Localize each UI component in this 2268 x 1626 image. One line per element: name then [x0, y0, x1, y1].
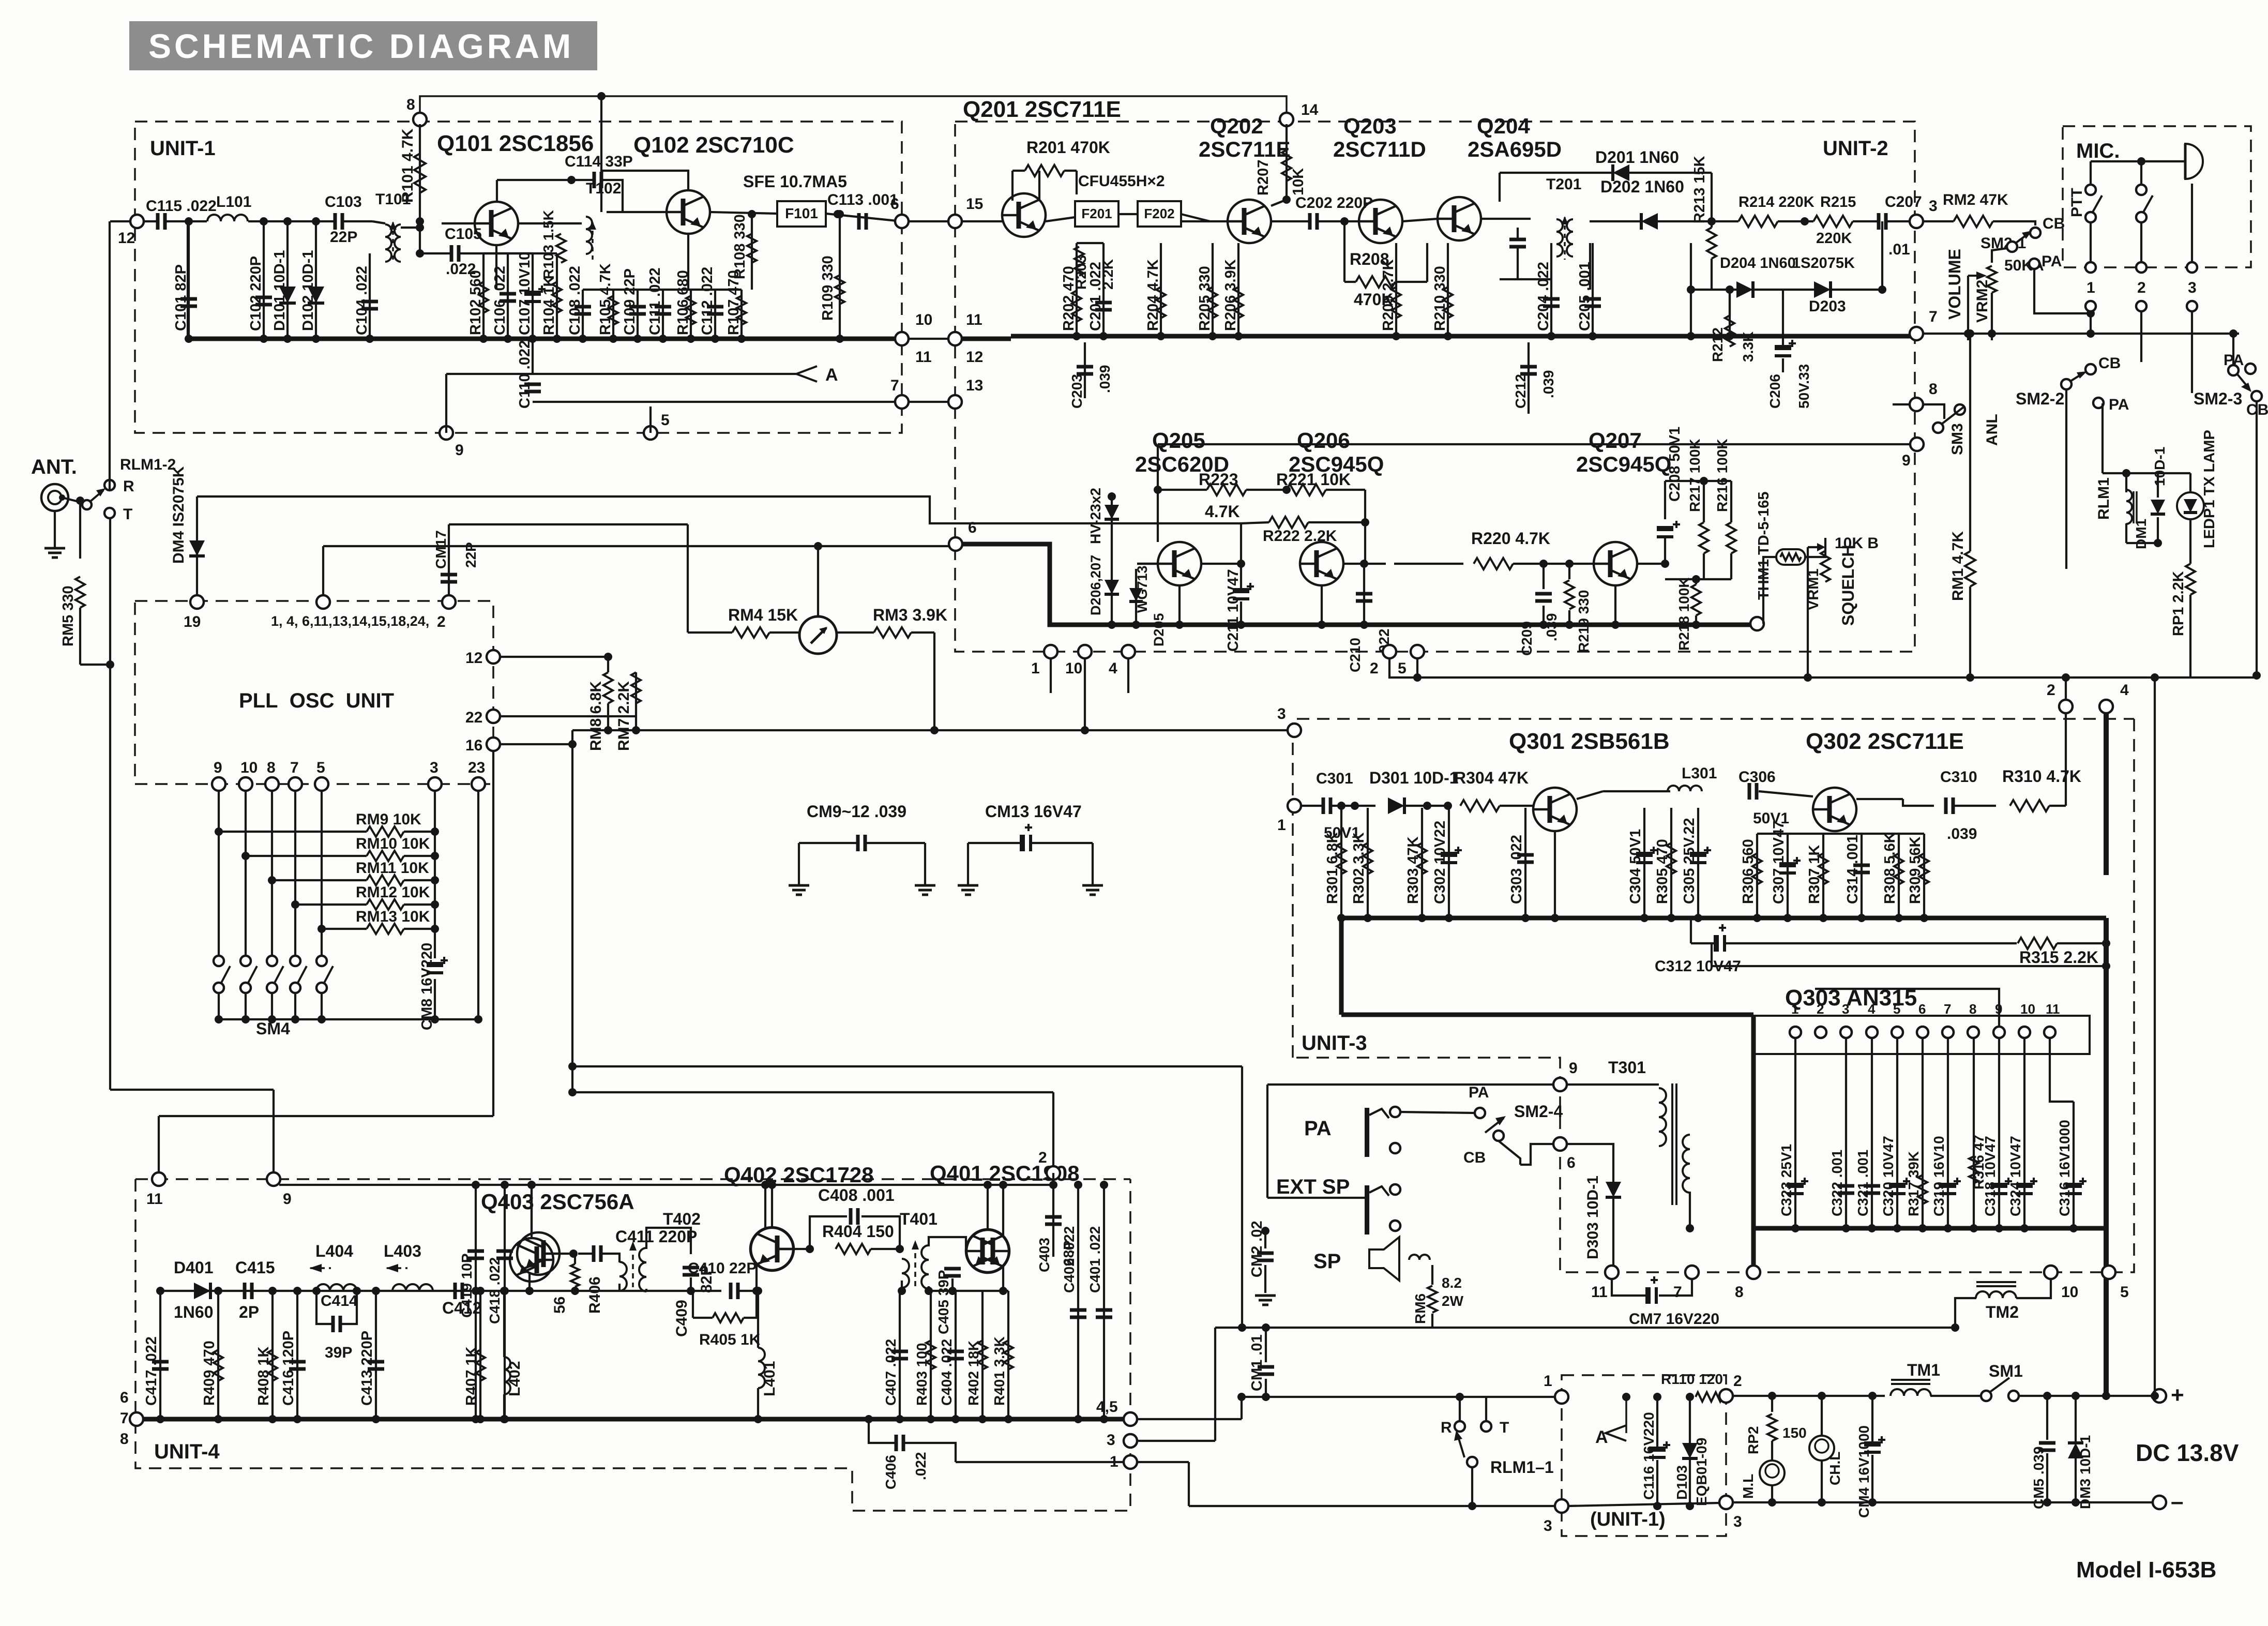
svg-text:PA: PA: [1304, 1117, 1332, 1140]
svg-text:7: 7: [1673, 1284, 1682, 1301]
svg-text:3: 3: [1929, 198, 1938, 215]
svg-text:R406: R406: [586, 1276, 603, 1314]
svg-text:6: 6: [1567, 1154, 1576, 1171]
svg-text:150: 150: [1782, 1425, 1807, 1441]
svg-text:RM12 10K: RM12 10K: [356, 884, 430, 901]
svg-text:1N60: 1N60: [174, 1303, 214, 1321]
svg-text:1: 1: [1277, 817, 1286, 834]
svg-text:12: 12: [118, 230, 135, 247]
svg-text:R214 220K: R214 220K: [1738, 194, 1815, 210]
svg-text:C110 .022: C110 .022: [517, 340, 533, 409]
svg-text:C111 .022: C111 .022: [647, 267, 663, 335]
svg-text:R401 3.3K: R401 3.3K: [991, 1336, 1007, 1406]
svg-text:7: 7: [1929, 308, 1938, 325]
svg-text:9: 9: [1902, 452, 1911, 469]
svg-text:R107 470: R107 470: [725, 270, 742, 335]
svg-text:RLM1–1: RLM1–1: [1490, 1458, 1554, 1477]
svg-text:11: 11: [2046, 1001, 2060, 1017]
svg-text:F202: F202: [1144, 206, 1174, 221]
svg-text:HV-23x2: HV-23x2: [1087, 488, 1103, 544]
svg-text:ANT.: ANT.: [31, 456, 77, 478]
svg-text:D103: D103: [1674, 1465, 1690, 1500]
svg-text:C113 .001: C113 .001: [827, 191, 898, 208]
svg-text:8.2: 8.2: [1442, 1275, 1462, 1291]
svg-text:C417 .022: C417 .022: [143, 1336, 160, 1406]
svg-text:PTT: PTT: [2068, 188, 2085, 217]
svg-text:R110 120: R110 120: [1661, 1371, 1723, 1387]
svg-text:A: A: [1595, 1427, 1608, 1447]
svg-text:C316 16V1000: C316 16V1000: [2057, 1120, 2073, 1216]
svg-text:R109 330: R109 330: [820, 255, 836, 321]
svg-text:C321 .001: C321 .001: [1855, 1150, 1871, 1216]
svg-text:39P: 39P: [325, 1344, 352, 1361]
svg-text:C405 39P: C405 39P: [935, 1270, 951, 1334]
svg-text:4.7K: 4.7K: [1205, 502, 1240, 521]
svg-text:C415: C415: [235, 1258, 275, 1277]
svg-text:3: 3: [2188, 279, 2197, 296]
svg-text:PA: PA: [1469, 1084, 1489, 1101]
svg-text:C314 .001: C314 .001: [1844, 835, 1861, 904]
svg-text:C116 16V220: C116 16V220: [1641, 1412, 1657, 1500]
svg-text:C310: C310: [1940, 769, 1977, 786]
svg-text:3: 3: [1733, 1513, 1742, 1530]
svg-text:C102 220P: C102 220P: [248, 256, 264, 331]
svg-text:7: 7: [120, 1410, 129, 1427]
svg-text:7: 7: [890, 377, 899, 394]
svg-text:3: 3: [1842, 1001, 1849, 1017]
svg-text:R220 4.7K: R220 4.7K: [1471, 529, 1550, 548]
svg-text:2: 2: [1733, 1373, 1742, 1390]
svg-text:.039: .039: [1540, 370, 1556, 399]
svg-text:CM17: CM17: [433, 530, 449, 569]
svg-text:SFE 10.7MA5: SFE 10.7MA5: [743, 172, 847, 191]
svg-text:6: 6: [1918, 1001, 1926, 1017]
svg-text:4: 4: [1868, 1001, 1876, 1017]
svg-text:RLM1: RLM1: [2095, 477, 2112, 520]
svg-text:UNIT-1: UNIT-1: [150, 137, 216, 160]
svg-text:T: T: [123, 506, 132, 523]
svg-text:11: 11: [966, 311, 982, 328]
svg-text:C404 .022: C404 .022: [939, 1339, 955, 1406]
svg-text:R216 100K: R216 100K: [1714, 439, 1730, 512]
svg-text:8: 8: [1929, 381, 1938, 398]
svg-text:2: 2: [2047, 682, 2055, 699]
svg-text:C211 10V47: C211 10V47: [1225, 569, 1242, 652]
svg-text:5: 5: [316, 759, 325, 776]
svg-text:SP: SP: [1313, 1250, 1341, 1273]
svg-text:Q101 2SC1856: Q101 2SC1856: [437, 131, 594, 156]
svg-text:RM5 330: RM5 330: [60, 585, 77, 646]
svg-text:5: 5: [2120, 1284, 2129, 1301]
svg-text:C322 .001: C322 .001: [1829, 1150, 1845, 1216]
svg-text:–: –: [2171, 1489, 2183, 1514]
svg-text:Q301 2SB561B: Q301 2SB561B: [1509, 729, 1670, 754]
svg-text:R213 15K: R213 15K: [1691, 156, 1708, 223]
svg-text:10: 10: [2020, 1001, 2035, 1017]
svg-text:220K: 220K: [1816, 230, 1852, 247]
svg-text:5: 5: [661, 412, 670, 429]
svg-text:C115 .022: C115 .022: [146, 198, 217, 215]
svg-text:C401 .022: C401 .022: [1087, 1226, 1103, 1293]
svg-text:R306 560: R306 560: [1740, 839, 1757, 904]
svg-text:R404 150: R404 150: [822, 1222, 894, 1241]
svg-text:C203: C203: [1069, 374, 1085, 409]
svg-text:RM9 10K: RM9 10K: [356, 811, 421, 828]
svg-text:R203: R203: [1073, 255, 1089, 290]
svg-text:R215: R215: [1820, 194, 1856, 210]
svg-text:DM4 IS2075K: DM4 IS2075K: [170, 466, 187, 564]
svg-text:11: 11: [915, 349, 932, 366]
svg-text:10: 10: [2061, 1284, 2078, 1301]
svg-text:3: 3: [1277, 705, 1286, 722]
svg-text:2W: 2W: [1442, 1293, 1464, 1309]
svg-text:4: 4: [2120, 682, 2129, 699]
svg-text:C109 22P: C109 22P: [622, 268, 638, 335]
svg-text:D205: D205: [1151, 613, 1167, 646]
svg-text:RM1 4.7K: RM1 4.7K: [1949, 531, 1967, 601]
svg-text:14: 14: [1301, 101, 1319, 118]
svg-text:L403: L403: [384, 1242, 421, 1260]
svg-text:L101: L101: [216, 193, 251, 210]
svg-text:Q205: Q205: [1152, 428, 1205, 453]
svg-text:R103 1.5K: R103 1.5K: [540, 210, 556, 279]
svg-text:CB: CB: [2043, 215, 2065, 232]
svg-text:11: 11: [146, 1191, 163, 1208]
svg-text:RM6: RM6: [1412, 1293, 1428, 1324]
svg-text:6: 6: [890, 195, 899, 213]
svg-text:M.L: M.L: [1740, 1474, 1756, 1499]
svg-text:RP2: RP2: [1745, 1426, 1761, 1454]
svg-text:5: 5: [1398, 660, 1407, 677]
svg-text:R108 330: R108 330: [732, 214, 748, 279]
svg-text:CM9~12 .039: CM9~12 .039: [807, 802, 906, 821]
svg-text:R305 470: R305 470: [1654, 839, 1671, 904]
svg-text:EXT SP: EXT SP: [1276, 1176, 1350, 1198]
svg-text:12: 12: [966, 349, 983, 366]
svg-text:R217 100K: R217 100K: [1687, 439, 1703, 512]
svg-text:L402: L402: [506, 1361, 523, 1396]
svg-text:D201 1N60: D201 1N60: [1595, 148, 1679, 167]
svg-text:D401: D401: [174, 1258, 214, 1277]
svg-text:13: 13: [966, 377, 983, 394]
svg-text:RLM1-2: RLM1-2: [120, 456, 176, 473]
svg-text:C108 .022: C108 .022: [567, 266, 583, 335]
svg-text:SM2-2: SM2-2: [2016, 389, 2064, 408]
svg-text:R402 18K: R402 18K: [965, 1341, 981, 1406]
svg-text:3: 3: [430, 759, 439, 776]
svg-text:9: 9: [214, 759, 222, 776]
svg-text:C301: C301: [1316, 770, 1353, 787]
svg-text:68P: 68P: [1061, 1240, 1077, 1266]
svg-text:3: 3: [1107, 1432, 1115, 1449]
svg-text:5: 5: [1893, 1001, 1900, 1017]
svg-text:CB: CB: [1463, 1149, 1486, 1166]
svg-text:SM1: SM1: [1989, 1362, 2023, 1380]
svg-text:R309 56K: R309 56K: [1907, 836, 1924, 904]
svg-text:2SA695D: 2SA695D: [1468, 137, 1562, 161]
svg-text:7: 7: [1944, 1001, 1951, 1017]
svg-text:R212: R212: [1710, 327, 1726, 362]
svg-text:C324 10V47: C324 10V47: [2007, 1136, 2023, 1216]
svg-text:C406: C406: [883, 1455, 899, 1489]
svg-text:2.2K: 2.2K: [1100, 259, 1116, 290]
svg-text:.039: .039: [1097, 365, 1113, 394]
svg-text:50V.33: 50V.33: [1796, 364, 1812, 409]
svg-text:R207: R207: [1255, 160, 1272, 195]
svg-text:Q402 2SC1728: Q402 2SC1728: [724, 1163, 874, 1187]
svg-text:R408 1K: R408 1K: [255, 1346, 272, 1406]
svg-text:DC 13.8V: DC 13.8V: [2136, 1439, 2239, 1466]
svg-text:15: 15: [966, 195, 983, 213]
svg-text:C210: C210: [1347, 638, 1363, 672]
svg-text:T401: T401: [900, 1210, 938, 1228]
svg-text:DM3 10D-1: DM3 10D-1: [2077, 1435, 2093, 1509]
svg-text:R317 39K: R317 39K: [1906, 1151, 1922, 1216]
svg-text:CM13 16V47: CM13 16V47: [985, 802, 1082, 821]
svg-text:R: R: [123, 478, 134, 495]
svg-text:R310 4.7K: R310 4.7K: [2002, 767, 2081, 786]
svg-text:C419 10P: C419 10P: [459, 1253, 475, 1318]
svg-text:C105: C105: [445, 225, 482, 243]
svg-text:T102: T102: [586, 180, 621, 197]
svg-text:19: 19: [184, 613, 201, 630]
svg-text:56: 56: [551, 1297, 568, 1314]
svg-text:C208 50V1: C208 50V1: [1667, 427, 1683, 502]
svg-text:2: 2: [437, 613, 446, 630]
svg-text:Q204: Q204: [1477, 114, 1530, 138]
svg-text:4: 4: [1109, 660, 1117, 677]
svg-text:1: 1: [2086, 279, 2095, 296]
svg-text:CM7 16V220: CM7 16V220: [1629, 1311, 1719, 1328]
svg-text:R101 4.7K: R101 4.7K: [399, 128, 416, 203]
svg-text:22: 22: [465, 709, 482, 726]
svg-text:2SC711D: 2SC711D: [1333, 137, 1426, 161]
svg-text:10: 10: [1065, 660, 1082, 677]
svg-text:C411 220P: C411 220P: [615, 1227, 697, 1246]
svg-text:R223: R223: [1199, 470, 1238, 489]
svg-text:D202 1N60: D202 1N60: [1600, 177, 1684, 196]
svg-text:9: 9: [283, 1191, 292, 1208]
svg-text:R: R: [1441, 1419, 1452, 1436]
svg-text:12: 12: [465, 650, 482, 667]
svg-text:C202 220P: C202 220P: [1295, 194, 1373, 212]
svg-text:D301 10D-1: D301 10D-1: [1369, 769, 1459, 787]
svg-text:2: 2: [1038, 1149, 1047, 1166]
svg-text:9: 9: [455, 442, 464, 459]
svg-text:10K: 10K: [1290, 168, 1307, 195]
svg-text:10: 10: [240, 759, 258, 776]
svg-text:C103: C103: [325, 193, 362, 210]
svg-text:.01: .01: [1888, 241, 1910, 258]
svg-text:8: 8: [267, 759, 276, 776]
svg-text:DM1: DM1: [2133, 519, 2149, 549]
svg-text:SM2-4: SM2-4: [1514, 1102, 1563, 1121]
svg-text:C112 .022: C112 .022: [699, 267, 716, 335]
svg-text:.022: .022: [913, 1452, 929, 1481]
svg-text:Q201 2SC711E: Q201 2SC711E: [963, 97, 1121, 122]
svg-text:RM8 6.8K: RM8 6.8K: [587, 681, 604, 751]
svg-text:F101: F101: [785, 205, 818, 221]
svg-text:L404: L404: [315, 1242, 353, 1260]
svg-text:2SC945Q: 2SC945Q: [1576, 452, 1671, 476]
svg-text:2: 2: [2137, 279, 2146, 296]
svg-text:D303 10D-1: D303 10D-1: [1584, 1176, 1601, 1259]
svg-text:.039: .039: [1947, 825, 1977, 842]
svg-text:8: 8: [1735, 1284, 1744, 1301]
svg-text:T201: T201: [1546, 176, 1581, 193]
svg-text:TM1: TM1: [1907, 1361, 1940, 1379]
svg-text:UNIT-2: UNIT-2: [1823, 137, 1888, 160]
svg-text:UNIT-4: UNIT-4: [154, 1440, 220, 1463]
svg-text:C319 16V10: C319 16V10: [1931, 1136, 1947, 1216]
svg-text:22P: 22P: [330, 229, 357, 246]
svg-text:PA: PA: [2109, 396, 2129, 413]
svg-text:1, 4, 6,11,13,14,15,18,24,: 1, 4, 6,11,13,14,15,18,24,: [271, 613, 429, 629]
svg-text:R307 1K: R307 1K: [1806, 845, 1823, 904]
svg-text:C206: C206: [1767, 374, 1783, 409]
svg-text:CB: CB: [2098, 355, 2121, 372]
svg-text:RM4 15K: RM4 15K: [728, 606, 798, 624]
svg-text:SM2-3: SM2-3: [2194, 389, 2242, 408]
svg-text:R222 2.2K: R222 2.2K: [1263, 528, 1337, 545]
svg-text:TM2: TM2: [1986, 1303, 2019, 1321]
svg-text:1S2075K: 1S2075K: [1792, 255, 1855, 272]
svg-text:+: +: [2171, 1382, 2184, 1408]
svg-text:Model I-653B: Model I-653B: [2076, 1557, 2216, 1583]
svg-text:C407 .022: C407 .022: [883, 1339, 899, 1406]
svg-text:10: 10: [915, 311, 932, 328]
svg-text:RM3 3.9K: RM3 3.9K: [873, 606, 947, 624]
svg-text:1: 1: [1544, 1373, 1552, 1390]
svg-text:RM7 2.2K: RM7 2.2K: [615, 681, 632, 751]
svg-text:11: 11: [1591, 1284, 1608, 1301]
svg-text:2: 2: [1817, 1001, 1824, 1017]
svg-text:9: 9: [1569, 1060, 1578, 1077]
svg-text:C320 10V47: C320 10V47: [1880, 1136, 1896, 1216]
svg-text:2: 2: [1370, 660, 1379, 677]
svg-text:R219 330: R219 330: [1576, 590, 1592, 653]
svg-text:T301: T301: [1608, 1058, 1646, 1077]
svg-text:SM4: SM4: [256, 1019, 290, 1038]
svg-text:R201 470K: R201 470K: [1026, 138, 1110, 157]
svg-text:RM13 10K: RM13 10K: [356, 908, 430, 925]
svg-text:T402: T402: [663, 1210, 701, 1228]
svg-text:C408 .001: C408 .001: [818, 1186, 895, 1205]
svg-text:VOLUME: VOLUME: [1945, 249, 1964, 320]
svg-text:4,5: 4,5: [1096, 1398, 1118, 1416]
svg-text:C114 33P: C114 33P: [565, 153, 633, 170]
svg-text:3: 3: [1544, 1517, 1552, 1534]
svg-text:PLL OSC UNIT: PLL OSC UNIT: [239, 689, 394, 712]
svg-text:Q102 2SC710C: Q102 2SC710C: [633, 132, 794, 158]
svg-text:C323 25V1: C323 25V1: [1778, 1144, 1794, 1216]
svg-text:CH.L: CH.L: [1827, 1452, 1843, 1485]
svg-text:RM11 10K: RM11 10K: [356, 860, 429, 877]
svg-text:C414: C414: [321, 1292, 358, 1309]
svg-text:7: 7: [290, 759, 299, 776]
svg-text:R206 3.9K: R206 3.9K: [1222, 259, 1239, 331]
svg-text:(UNIT-1): (UNIT-1): [1590, 1509, 1666, 1530]
svg-text:T: T: [1500, 1419, 1509, 1436]
svg-text:6: 6: [968, 519, 977, 536]
svg-text:Q302 2SC711E: Q302 2SC711E: [1806, 729, 1964, 754]
svg-text:8: 8: [120, 1431, 129, 1448]
svg-text:RP1 2.2K: RP1 2.2K: [2170, 571, 2187, 636]
svg-text:R407 1K: R407 1K: [463, 1346, 480, 1406]
svg-text:2SC711E: 2SC711E: [1199, 137, 1290, 161]
svg-text:R106 680: R106 680: [675, 270, 691, 335]
svg-text:1: 1: [1791, 1001, 1798, 1017]
svg-text:R209 2.7K: R209 2.7K: [1380, 259, 1397, 331]
svg-text:Q202: Q202: [1210, 114, 1263, 138]
svg-text:C303 .022: C303 .022: [1508, 835, 1525, 904]
svg-text:EQB01-09: EQB01-09: [1694, 1438, 1710, 1506]
svg-text:ANL: ANL: [1984, 414, 2001, 446]
svg-text:C207: C207: [1885, 193, 1922, 210]
svg-text:SCHEMATIC DIAGRAM: SCHEMATIC DIAGRAM: [148, 27, 574, 65]
svg-text:6: 6: [120, 1389, 129, 1406]
svg-text:8: 8: [1969, 1001, 1976, 1017]
svg-text:RM2 47K: RM2 47K: [1943, 191, 2008, 208]
svg-text:CFU455H×2: CFU455H×2: [1078, 173, 1165, 190]
svg-text:MIC.: MIC.: [2076, 140, 2120, 162]
svg-text:Q206: Q206: [1297, 428, 1350, 453]
svg-text:C409: C409: [673, 1300, 690, 1337]
svg-text:10D-1: 10D-1: [2152, 447, 2168, 486]
svg-text:1: 1: [1031, 660, 1040, 677]
svg-text:Q207: Q207: [1589, 428, 1642, 453]
svg-text:LEDP1 TX LAMP: LEDP1 TX LAMP: [2201, 430, 2218, 548]
svg-text:8: 8: [406, 96, 415, 113]
svg-text:R316 47: R316 47: [1971, 1135, 1987, 1190]
svg-text:CM1 .01: CM1 .01: [1249, 1334, 1265, 1391]
svg-text:2P: 2P: [239, 1303, 259, 1321]
svg-text:23: 23: [468, 759, 485, 776]
svg-text:RM10 10K: RM10 10K: [356, 835, 430, 852]
svg-text:A: A: [825, 365, 838, 385]
svg-text:C410 22P: C410 22P: [688, 1260, 757, 1277]
svg-text:L401: L401: [761, 1361, 778, 1396]
svg-text:C403: C403: [1036, 1238, 1052, 1272]
svg-text:D203: D203: [1809, 298, 1846, 315]
svg-text:1: 1: [1110, 1453, 1118, 1470]
svg-text:PA: PA: [2042, 253, 2062, 270]
svg-text:R315 2.2K: R315 2.2K: [2019, 948, 2098, 967]
svg-text:R204 4.7K: R204 4.7K: [1145, 259, 1161, 331]
svg-text:D204 1N60: D204 1N60: [1720, 255, 1796, 272]
svg-text:R405 1K: R405 1K: [699, 1331, 761, 1348]
svg-text:SQUELCH: SQUELCH: [1839, 545, 1857, 626]
svg-text:D206,207: D206,207: [1088, 555, 1103, 615]
svg-text:3.3K: 3.3K: [1740, 332, 1756, 362]
svg-text:16: 16: [465, 737, 482, 754]
svg-text:R304 47K: R304 47K: [1454, 769, 1529, 787]
svg-text:L301: L301: [1682, 765, 1717, 782]
svg-text:C204 .022: C204 .022: [1535, 262, 1552, 331]
svg-text:R218 100K: R218 100K: [1676, 577, 1692, 651]
svg-text:Q203: Q203: [1343, 114, 1397, 138]
svg-text:C212: C212: [1513, 374, 1529, 409]
svg-text:UNIT-3: UNIT-3: [1302, 1032, 1367, 1055]
svg-text:F201: F201: [1081, 206, 1112, 221]
svg-text:C305 25V.22: C305 25V.22: [1681, 818, 1698, 904]
svg-text:C304 50V1: C304 50V1: [1627, 829, 1644, 904]
svg-text:SM3: SM3: [1949, 423, 1966, 455]
